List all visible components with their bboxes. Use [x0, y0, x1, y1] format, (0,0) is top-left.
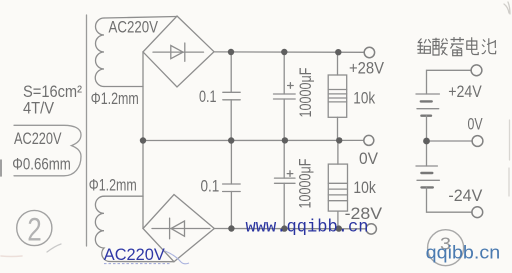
resistor R2 10k (lower) leads: [337, 141, 339, 165]
svg-text:0V: 0V: [359, 149, 379, 168]
wire: centre tap vertical (bridge left vertex down to lower bridge): [142, 52, 144, 229]
-28V rail wire: [214, 228, 366, 230]
svg-text:10000μF: 10000μF: [296, 68, 315, 118]
svg-text:+24V: +24V: [448, 82, 482, 101]
capacitor C3 0.1 (lower) leads: [230, 141, 232, 185]
char 3 xu: [451, 37, 465, 56]
circled figure number 3 (bottom right): [428, 230, 464, 266]
terminal 0V circle (battery): [472, 136, 483, 147]
winding W1 (upper secondary coil): [95, 18, 104, 87]
char 2 suan: [432, 38, 448, 55]
circled figure number 2: [17, 210, 52, 245]
scan artifact top right corner: [504, 2, 510, 14]
svg-text:AC220V: AC220V: [14, 129, 62, 148]
bridge rectifier U1 (upper diamond): [143, 16, 214, 87]
terminal -28V circle: [366, 224, 376, 234]
battery BT1 cell plates (upper pair): [416, 93, 439, 95]
wire battery mid to 0V node: [426, 116, 428, 141]
svg-text:4T/V: 4T/V: [23, 99, 55, 118]
char 5 chi: [482, 38, 496, 53]
char 1 qian: [417, 39, 430, 54]
capacitor C3 plates: [223, 183, 241, 185]
+28V rail wire: [214, 51, 364, 53]
scan artifact left edge mark: [0, 160, 2, 176]
svg-text:AC220V: AC220V: [109, 17, 159, 36]
capacitor C1 plates: [223, 91, 240, 93]
watermark diagonal artifact: [165, 251, 189, 264]
svg-text:0V: 0V: [468, 115, 484, 134]
capacitor C1 0.1 (upper) leads: [230, 52, 232, 92]
capacitor C4 plates: [275, 177, 296, 179]
resistor R1 body: [328, 75, 347, 117]
node: -28V rail / C3: [228, 225, 234, 231]
resistor R1 inner bands: [328, 90, 347, 102]
terminal +28V circle: [364, 47, 374, 57]
diode D1 inside upper bridge: [153, 51, 204, 53]
svg-text:www.qqibb.cn: www.qqibb.cn: [246, 219, 369, 238]
node: 0V rail / centre tap: [140, 137, 146, 143]
capacitor C4 polarity +: [287, 171, 293, 177]
capacitor C4 10000uF (lower electrolytic) leads: [283, 141, 285, 179]
svg-text:2: 2: [27, 211, 42, 247]
resistor R2 inner bands: [328, 183, 347, 200]
wire: upper winding top to bridge top vertex: [104, 17, 177, 19]
terminal +24V circle: [471, 65, 482, 76]
node: 0V rail / C2: [282, 137, 288, 143]
node: -28V rail / C4: [281, 225, 287, 231]
node: battery 0V junction: [423, 138, 430, 145]
svg-text:Φ0.66mm: Φ0.66mm: [12, 155, 71, 174]
0V rail wire: [143, 139, 364, 141]
node: +28V rail / R1: [335, 49, 341, 55]
node: +28V rail / C2: [281, 49, 287, 55]
svg-text:0.1: 0.1: [201, 176, 220, 195]
char 4 dian: [467, 37, 478, 54]
svg-text:10000μF: 10000μF: [296, 159, 315, 209]
scan artifact right edge: [508, 120, 511, 196]
node: 0V rail / C1: [228, 137, 234, 143]
terminal 0V circle (left section): [364, 135, 374, 145]
wire 0V node down to lower battery: [426, 141, 428, 166]
node: 0V rail / R1: [336, 137, 342, 143]
title: lead-acid battery (Chinese, drawn strokes): [417, 37, 495, 56]
wire: upper winding bottom lead: [104, 86, 143, 88]
watermark dashed underline: [104, 263, 170, 265]
resistor R1 10k (upper) leads: [337, 52, 339, 75]
wire: lower winding bottom lead to bridge bottom vertex: [110, 261, 174, 263]
battery BT2 cell plates (lower pair): [416, 165, 437, 167]
node: -28V rail / R2: [336, 225, 342, 231]
wire 0V node to right 0V terminal: [427, 140, 473, 142]
svg-text:+28V: +28V: [349, 58, 385, 77]
svg-text:qqibb.cn: qqibb.cn: [426, 241, 501, 262]
svg-text:10k: 10k: [353, 178, 376, 197]
winding W2 (lower secondary coil): [95, 196, 110, 261]
wire battery bottom to -24V terminal: [427, 187, 473, 212]
bridge rectifier U2 (lower diamond): [143, 195, 214, 262]
capacitor C2 plates: [274, 93, 296, 95]
diode D2 inside lower bridge: [152, 228, 210, 230]
capacitor C2 10000uF (upper electrolytic) leads: [283, 52, 285, 94]
svg-text:0.1: 0.1: [199, 87, 217, 106]
terminal -24V circle: [472, 207, 483, 218]
battery BT1 wire from +24V terminal: [427, 70, 472, 94]
capacitor C2 polarity +: [288, 83, 294, 89]
wire: lower winding top lead: [104, 195, 143, 197]
svg-text:Φ1.2mm: Φ1.2mm: [91, 89, 139, 108]
svg-text:AC220V: AC220V: [104, 245, 166, 264]
node: +28V rail / C1: [228, 49, 234, 55]
resistor R2 body: [328, 164, 347, 211]
svg-text:-24V: -24V: [448, 186, 483, 205]
transformer T1 core: [86, 15, 88, 246]
scan artifact bottom left smudge: [1, 255, 22, 258]
svg-text:Φ1.2mm: Φ1.2mm: [89, 175, 137, 194]
label brace for primary winding specs: [14, 125, 81, 176]
stray pencil mark near circle 2: [47, 244, 61, 252]
svg-text:10k: 10k: [353, 88, 375, 107]
